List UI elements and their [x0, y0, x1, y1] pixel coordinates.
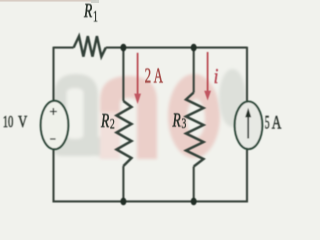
svg-text:i: i — [214, 65, 219, 88]
watermark gray ring — [54, 74, 110, 156]
wire left vertical lower — [54, 148, 125, 201]
svg-text:2 A: 2 A — [145, 63, 164, 87]
wire R2 branch upper — [122, 48, 124, 101]
resistor R1 — [74, 36, 106, 56]
svg-text:10: 10 — [3, 112, 14, 131]
voltage source plus sign — [50, 108, 57, 115]
resistor R2 — [117, 101, 132, 166]
svg-text:5: 5 — [265, 113, 270, 133]
wire right vertical lower — [246, 148, 248, 203]
current source I 5A — [235, 102, 263, 150]
current source arrow — [247, 116, 249, 139]
wire right vertical upper — [246, 47, 248, 103]
svg-text:R: R — [83, 0, 92, 22]
label R1 — [83, 0, 98, 25]
svg-text:3: 3 — [181, 115, 186, 132]
svg-text:R: R — [172, 109, 181, 131]
faint top edge line — [0, 0, 96, 2]
label 2 A — [145, 63, 164, 87]
watermark gray wash right — [219, 69, 246, 127]
label 10 V — [3, 112, 28, 131]
current arrow 2A — [134, 53, 141, 104]
svg-text:1: 1 — [93, 7, 98, 25]
svg-text:2: 2 — [110, 116, 115, 133]
top edge artifact — [91, 0, 99, 3]
wire R3 branch lower — [193, 167, 195, 202]
current arrow i — [204, 52, 211, 101]
voltage source V 10V — [41, 101, 69, 149]
svg-text:A: A — [272, 111, 282, 133]
wire top from left corner to R1 — [54, 47, 74, 49]
wire R2 branch lower — [122, 166, 124, 201]
label 5 A — [265, 111, 282, 133]
wire left vertical upper — [52, 47, 54, 102]
wire top from R1 to right corner — [106, 47, 247, 49]
watermark pink letter n — [100, 76, 157, 159]
watermark pink ring p — [168, 74, 220, 158]
node dot top R2 — [120, 44, 126, 52]
node dot top R3 — [191, 44, 197, 52]
resistor R3 — [186, 93, 204, 167]
label R3 — [172, 109, 187, 132]
wire R3 branch upper — [193, 48, 195, 93]
node dot bottom R3 — [191, 198, 197, 206]
svg-text:V: V — [18, 113, 27, 131]
label R2 — [100, 109, 115, 132]
node dot bottom R2 — [120, 198, 126, 206]
svg-text:R: R — [100, 109, 109, 131]
voltage source minus sign — [50, 138, 56, 140]
label i — [214, 65, 219, 88]
wire bottom — [123, 200, 248, 202]
